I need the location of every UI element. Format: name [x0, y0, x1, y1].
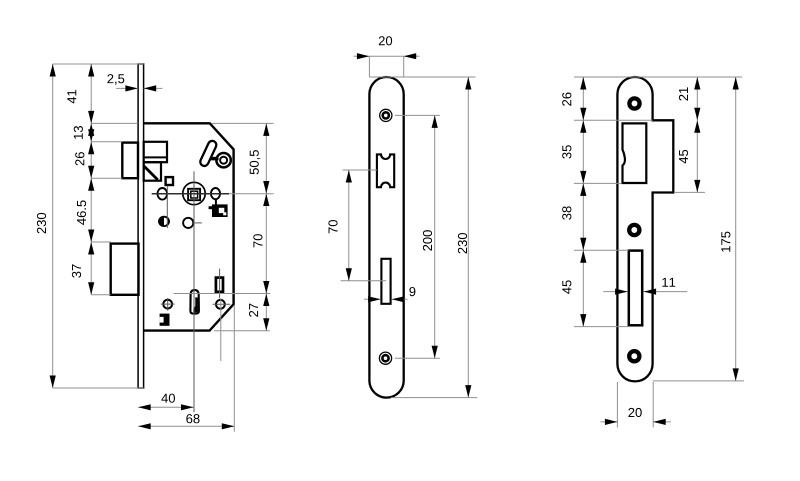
dimension 175 (strike length) [735, 77, 737, 381]
extension line deadbolt top [91, 241, 111, 243]
extension line 20 left (strike) [616, 382, 618, 427]
extension line tab top [574, 119, 653, 121]
extension line plate bottom [53, 387, 144, 389]
strike middle screw hole [629, 225, 639, 235]
dimension 70 (latch to bolt centres) [348, 170, 350, 281]
label 50,5 [250, 150, 261, 174]
label 37 [72, 264, 81, 277]
dimension 68 (case depth) [138, 425, 234, 427]
lever pivot double circle [216, 153, 230, 167]
label 26 (strike) [562, 93, 571, 106]
extension line 20 right (strike) [652, 382, 654, 427]
deadbolt head block [111, 244, 139, 295]
horizontal centerline through follower [152, 193, 229, 195]
spindle hub right roller [211, 188, 220, 199]
extension line tab bottom [674, 191, 705, 193]
extension line plate top (middle) [370, 76, 476, 78]
strike top screw hole [629, 98, 639, 108]
label 13 [74, 126, 83, 139]
extension line latch centre [343, 169, 378, 171]
square follower hub [183, 182, 205, 204]
dimension chain 26-35-38-45 [582, 77, 584, 327]
spring roller (half filled) [159, 217, 169, 226]
dimension 11 (slot width strike) [603, 291, 627, 293]
label 70 (left view) [253, 234, 262, 247]
extension line 27 bottom [214, 330, 270, 332]
deadbolt slot (middle view) [381, 259, 390, 304]
faceplate side view (left view) [138, 64, 144, 388]
extension line deadbolt bottom [91, 294, 111, 296]
extension line body top 13 [91, 122, 138, 124]
extension line latch top [91, 141, 122, 143]
right key circle [216, 300, 225, 309]
extension line strike top [574, 76, 742, 78]
vertical extension line 68 [233, 305, 235, 432]
extension line strike bottom [653, 380, 744, 382]
extension line slot top (strike) [574, 249, 629, 251]
strike latch opening [623, 123, 647, 183]
latch opening (middle view) [377, 154, 394, 187]
extension line plate bottom (middle) [391, 397, 477, 399]
key stop bracket (black) [160, 314, 170, 326]
extension line 20 right [403, 56, 405, 77]
dimension 20 (strike width) [601, 421, 618, 423]
lever latch (top hook) [199, 140, 218, 168]
dimension 9 (slot width) [364, 298, 381, 300]
snib lever (black detail) [209, 206, 214, 209]
label 45 (strike left) [562, 280, 571, 294]
extension line slot centre [341, 280, 387, 282]
vertical centerline stop pin [166, 186, 168, 229]
extension line plate top [53, 63, 144, 65]
extension line 20 left [368, 56, 370, 77]
dimension 200 (screw centres) [434, 115, 436, 358]
strike bottom screw hole [629, 351, 639, 361]
spindle hub left roller [158, 188, 168, 200]
key pin clip [190, 290, 199, 314]
dimension 21 and 45 (tab) [696, 77, 698, 192]
label 27 [249, 304, 258, 317]
faceplate front outline (middle view) [369, 77, 403, 398]
label 45 (tab) [679, 150, 688, 164]
dimension 230 (overall length, left view) [52, 64, 54, 388]
dimension 40 (backset) [138, 406, 193, 408]
top screw hole (middle view) [380, 109, 392, 121]
label 35 (strike) [562, 145, 571, 158]
extension line 70-27 boundary [174, 293, 271, 295]
latch guide block [144, 162, 161, 181]
strike plate outline with lip tab [617, 77, 673, 381]
label 38 (strike) [562, 206, 571, 219]
extension line bottom screw [395, 357, 440, 359]
extension line 50.5 top [212, 122, 274, 124]
extension line latch bottom [91, 177, 122, 179]
left key circle [163, 300, 172, 309]
dimension 2,5 (plate thickness) [116, 87, 138, 89]
dimension chain 41-13-26-46.5-37 [90, 64, 92, 295]
extension line latch bottom (strike) [574, 182, 621, 184]
dimension 230 (faceplate length) [467, 77, 469, 398]
dimension 20 (faceplate width) [354, 55, 370, 57]
strike deadbolt slot [629, 251, 642, 326]
label 21 [679, 87, 688, 100]
latch bolt body [144, 142, 167, 162]
vertical centerline (backset 40) [193, 171, 195, 412]
label 26 [75, 152, 84, 165]
latch bolt head [122, 143, 138, 179]
bottom screw hole (middle view) [379, 352, 391, 364]
extension line top screw [395, 114, 440, 116]
stop pin square [166, 177, 173, 185]
lower guide circle [183, 218, 193, 228]
tumbler rectangle [216, 278, 223, 292]
label 46.5 [77, 200, 86, 224]
dimension chain 50,5-70-27 [265, 123, 267, 330]
vertical centerline tumbler [219, 269, 221, 299]
label 41 [67, 90, 76, 104]
extension line slot bottom (strike) [574, 326, 630, 328]
vertical extension line right circle [220, 298, 222, 361]
lock case outline (left view) [144, 123, 234, 330]
